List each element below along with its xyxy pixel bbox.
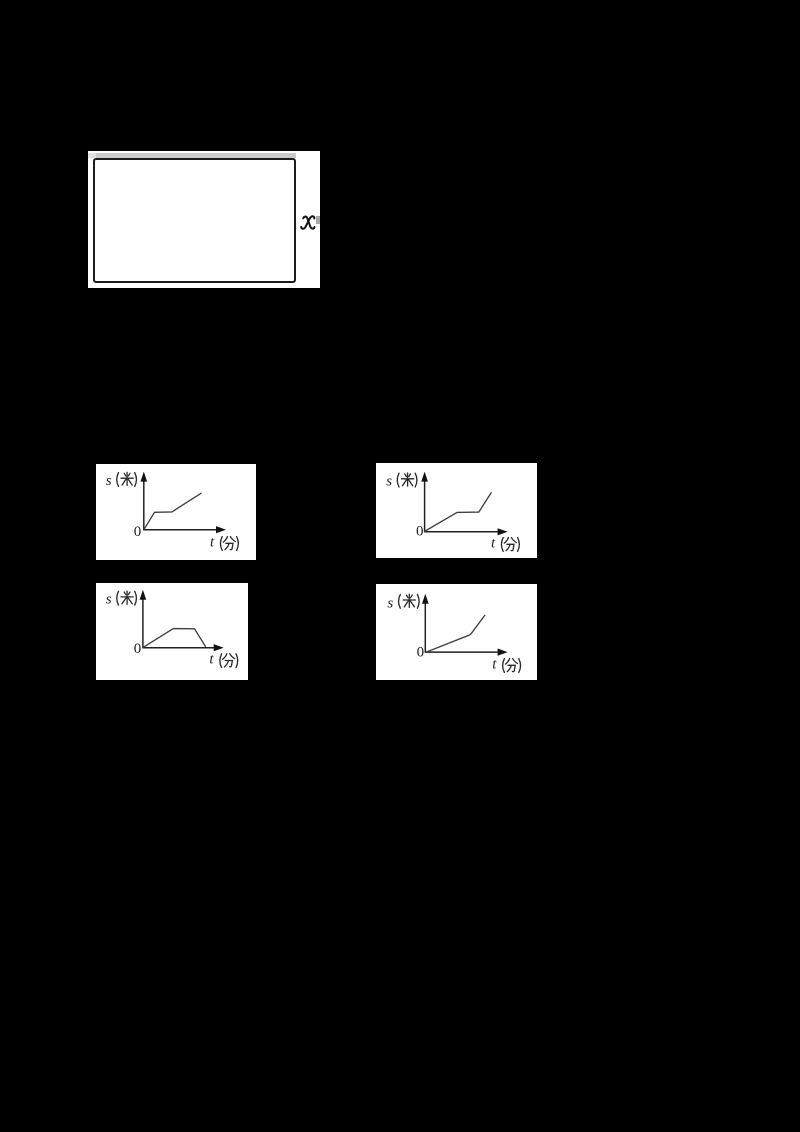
svg-text:s: s xyxy=(106,592,112,608)
svg-text:s: s xyxy=(386,474,392,490)
svg-text:0: 0 xyxy=(416,523,424,539)
svg-text:s: s xyxy=(387,596,393,612)
svg-text:t: t xyxy=(491,535,496,551)
svg-text:t: t xyxy=(492,656,497,672)
svg-text:t: t xyxy=(209,652,214,668)
svg-text:0: 0 xyxy=(134,641,142,657)
svg-text:s: s xyxy=(106,473,112,489)
svg-text:t: t xyxy=(210,534,215,550)
svg-text:0: 0 xyxy=(417,644,425,660)
svg-text:0: 0 xyxy=(134,524,142,540)
